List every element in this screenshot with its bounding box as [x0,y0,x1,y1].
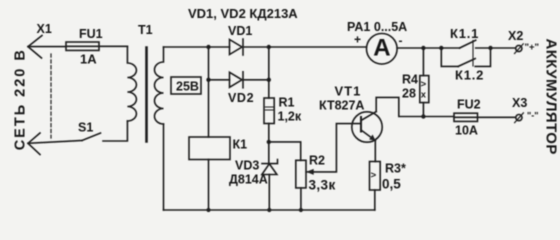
wire X1 to switch S1 [28,141,82,144]
svg-text:0,5: 0,5 [382,177,401,192]
wire node B to ammeter [269,46,367,48]
contact K1.1 [441,40,490,48]
svg-text:>: > [371,170,377,181]
wire secondary top to node A [164,46,209,48]
node D top junction dot (R4 top) [421,46,425,50]
wire VT1 emitter to R3 [374,141,376,162]
svg-text:10А: 10А [455,124,478,138]
transformer T1 core [145,48,148,142]
wire R4 bottom stem [422,103,424,117]
svg-text:VD3: VD3 [235,159,259,173]
wire node A down to VD2 row [208,47,210,80]
connector X1 pin bottom arrow [28,133,40,155]
diode VD1 [230,39,244,55]
wire R2 bottom to ground rail [300,188,302,210]
svg-text:1А: 1А [80,52,97,67]
transistor VT1 [352,112,382,143]
svg-text:"-": "-" [527,111,539,121]
ground rail (bottom wire) [164,209,375,211]
wire node C to VD3 [268,142,270,164]
wire R4 top stem [422,48,424,76]
wire K1 column from node A2 to coil [208,80,210,137]
diode VD2 [230,72,244,88]
wire X1 to FU1 [28,46,66,48]
zener diode VD3 [262,160,278,175]
wire R3 to ground rail end [374,190,376,210]
svg-text:К1.2: К1.2 [455,68,484,83]
wire K1 coil to ground rail [208,160,210,211]
connector X1 dashed link [50,54,52,138]
junction dot rail K1 [206,208,210,212]
svg-text:25В: 25В [176,80,199,94]
svg-text:S1: S1 [78,121,93,135]
transformer T1 primary winding [127,46,136,121]
resistor R3* [370,162,381,191]
node A2 junction dot [206,78,210,82]
wire R1 to node C [268,124,270,142]
resistor R2 (rheostat) [296,160,314,188]
svg-text:X3: X3 [512,96,527,110]
svg-text:x: x [421,90,426,100]
svg-text:X2: X2 [508,29,523,43]
svg-text:Т1: Т1 [138,23,153,37]
node B2 junction dot [267,78,271,82]
svg-text:"+": "+" [525,42,540,53]
svg-text:R2: R2 [309,154,325,168]
connector X3 socket symbol [515,113,524,123]
wire node D to FU2 [423,116,454,118]
switch S1 lever [82,133,101,141]
svg-text:R4: R4 [402,73,418,87]
svg-text:+: + [354,33,361,47]
node D junction dot [421,114,425,118]
contact K1.2 branch [441,48,490,66]
svg-text:VD2: VD2 [228,91,254,105]
node E junction dot (K1.1 left) [439,46,443,50]
wire S1 to T1 primary bottom [103,121,127,141]
wire VT1 collector to node D [376,97,423,116]
svg-text:R3*: R3* [385,162,406,176]
node A junction dot [206,45,210,49]
fuse FU1 [66,42,99,50]
junction dot rail VD3 [267,208,271,212]
mechanical link K1.1-K1.2 [472,41,474,67]
svg-text:VD1, VD2 КД213А: VD1, VD2 КД213А [188,6,298,21]
wire R2 wiper to VT1 base [313,124,361,172]
fuse FU2 [454,113,478,121]
connector X1 pin top arrow [28,36,42,59]
wire FU2 to X3 [478,116,516,118]
svg-text:>: > [421,79,427,90]
svg-text:A: A [373,35,390,62]
svg-text:1,2к: 1,2к [278,110,302,124]
wire node A2 to VD2 anode [209,79,230,81]
junction dot rail R2 [299,208,303,212]
relay coil K1 [189,137,230,160]
svg-text:-: - [399,34,403,48]
svg-text:КТ827А: КТ827А [319,99,364,113]
wire secondary bottom to ground rail [163,124,165,210]
svg-text:АККУМУЛЯТОР: АККУМУЛЯТОР [543,39,560,155]
svg-text:28: 28 [402,87,416,101]
node C junction dot [267,140,271,144]
wire VD3 to ground rail [268,175,270,211]
svg-text:К1: К1 [233,138,248,152]
wire to X2 [491,47,516,49]
svg-text:FU2: FU2 [457,98,481,112]
svg-text:VT1: VT1 [335,84,362,99]
svg-text:FU1: FU1 [79,27,103,41]
wire ammeter to node D top [397,47,441,49]
svg-text:R1: R1 [279,96,295,110]
node F junction dot (K1.1 right) [488,46,492,50]
svg-text:К1.1: К1.1 [450,26,479,41]
wire node B down through R1 [268,47,270,98]
svg-text:VD1: VD1 [228,24,252,38]
label 25В secondary voltage (boxed) [171,77,201,94]
svg-text:Д814А: Д814А [229,173,268,187]
transformer T1 secondary winding [155,47,164,124]
wire FU1 to T1 primary [99,45,127,47]
wire VD1 cathode to node B [243,46,269,48]
svg-text:3,3к: 3,3к [309,178,336,193]
resistor R4 [420,76,429,103]
svg-text:СЕТЬ 220 В: СЕТЬ 220 В [13,48,29,150]
connector X2 socket symbol [515,44,524,54]
node B junction dot [267,45,271,49]
wire VD2 cathode to node B2 [243,79,269,81]
wire node C to R2 top [269,142,301,160]
svg-text:X1: X1 [37,22,52,36]
wire node A to VD1 anode [209,46,230,48]
ammeter PA1 [367,34,398,65]
resistor R1 [264,98,274,124]
